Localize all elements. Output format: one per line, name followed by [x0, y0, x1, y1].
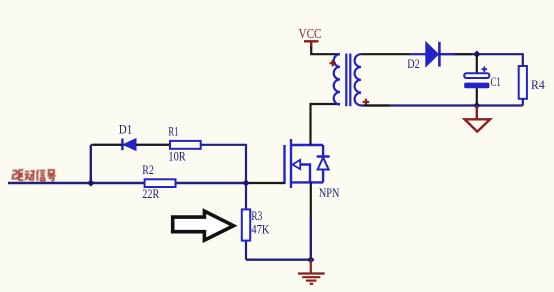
svg-text:10R: 10R	[168, 149, 186, 164]
svg-text:22R: 22R	[142, 186, 159, 201]
body diode	[317, 145, 330, 182]
primary winding	[334, 54, 340, 104]
resistor R3	[242, 183, 270, 260]
wire: R3 bottom to source junction	[246, 259, 311, 261]
resistor R4	[519, 66, 545, 106]
wire: secondary bottom rail	[361, 104, 523, 106]
drain rail	[291, 144, 323, 146]
svg-text:D1: D1	[119, 122, 133, 137]
动	[25, 172, 30, 180]
wire: junction-to-gate segment	[246, 182, 285, 184]
polarity dot primary	[330, 60, 337, 66]
capacitor C1	[464, 54, 501, 105]
wire: D1/R1 top branch	[91, 145, 246, 183]
svg-text:VCC: VCC	[299, 27, 322, 42]
svg-text:R2: R2	[142, 162, 154, 177]
node: source/ground junction	[307, 256, 314, 263]
secondary winding	[355, 54, 361, 105]
wire: drive-signal main horizontal net	[8, 182, 246, 184]
信	[37, 170, 39, 181]
resistor R2	[145, 179, 176, 187]
annotation arrow	[173, 211, 234, 240]
resistor R1	[170, 141, 201, 149]
substrate arrow lead	[300, 165, 311, 183]
gate bar	[283, 145, 285, 184]
polarity dot secondary	[363, 99, 370, 105]
号	[47, 170, 55, 181]
node: drive-signal / branch junction	[87, 179, 94, 186]
transistor Q1 (N-MOSFET)	[285, 139, 330, 188]
wire: drain up to transformer	[311, 104, 341, 145]
power VCC symbol	[299, 27, 341, 54]
diode D1	[93, 122, 170, 151]
驱	[13, 171, 18, 179]
wire: left vertical branch	[90, 145, 92, 183]
wire: gate pin stub	[281, 182, 285, 184]
channel bar	[290, 139, 292, 188]
svg-text:NPN: NPN	[319, 185, 340, 200]
source rail	[291, 181, 323, 183]
svg-text:R4: R4	[531, 77, 545, 92]
label: 驱动信号 (drive signal, hand-drawn strokes)	[13, 170, 56, 181]
wire: secondary top to D2	[361, 53, 410, 55]
node: cathode junction	[473, 51, 480, 58]
node: C1 bottom junction	[473, 102, 480, 109]
svg-text:D2: D2	[407, 56, 419, 71]
arrow head	[293, 160, 301, 169]
diode D2	[407, 42, 439, 71]
ground: output return	[465, 106, 491, 132]
transformer T1	[334, 54, 361, 107]
svg-text:R1: R1	[168, 124, 178, 139]
wire: D2 to R4 top	[439, 54, 522, 66]
core lines	[346, 54, 350, 107]
node: branch rejoin junction	[242, 179, 249, 186]
wire: source down to junction	[310, 182, 312, 218]
svg-text:47K: 47K	[251, 221, 269, 236]
ground: source earth symbol	[298, 260, 325, 284]
svg-text:C1: C1	[491, 74, 501, 89]
